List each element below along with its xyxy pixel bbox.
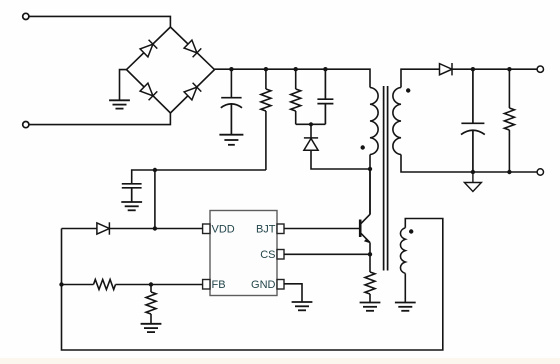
pin VDD box [203,224,210,234]
wire bridge diamond [127,27,215,113]
node bus-C3 junction [323,67,327,71]
wire top input [29,16,171,27]
capacitor C1 (bulk electrolytic) [221,98,242,135]
input terminal J1 (line, top) [23,13,29,19]
wire Y to VDD line [154,170,156,229]
node FB divider junction [149,282,153,286]
diode D6 (snubber clamp, pointing up) [304,138,318,150]
node bus-C1 junction [229,67,233,71]
node aux phase dot [409,229,413,233]
svg-text:VDD: VDD [212,224,235,236]
transformer T1 core [384,86,388,271]
wire primary bottom to collector [369,155,371,215]
resistor R1 (startup) [261,69,271,170]
transformer T1 primary winding [370,88,378,155]
node Y junction [153,168,157,172]
ground G7 (sense resistor) [360,303,381,311]
ground G8 (aux winding) [395,303,416,311]
resistor R4 (FB lower) [146,285,156,324]
diode D4 (bridge bottom-right) [184,83,202,101]
svg-text:BJT: BJT [256,224,276,236]
diode D5 (VDD charge) [97,222,110,234]
node load bottom junction [507,170,511,174]
pin GND box [277,280,284,290]
output terminal J4 (-) [537,169,543,175]
wire secondary top [401,69,440,87]
diode D2 (bridge top-right) [184,40,202,58]
capacitor C2 (VDD bypass) [122,184,142,202]
ground G3 (VDD cap) [121,202,142,210]
decorative bottom band [0,358,560,364]
pin BJT box [277,224,284,234]
input terminal J2 (neutral, bottom) [23,122,29,128]
wire bottom input [29,113,171,125]
diode D1 (bridge top-left) [140,40,158,58]
node primary phase dot [361,145,365,149]
wire GND pin to ground [284,284,302,302]
IC U1 body [210,211,277,296]
transformer T1 auxiliary winding [400,228,405,274]
transformer T1 secondary winding [393,88,401,155]
wire collector [369,169,371,215]
resistor R6 (load) [504,69,514,172]
diode D3 (bridge bottom-left) [140,83,158,101]
output terminal J3 (+) [537,66,543,72]
wire BJT base [284,228,359,230]
capacitor C3 (snubber) [317,69,333,124]
wire left rail [62,219,443,351]
ground G4 (secondary signal ground triangle) [464,172,481,192]
node output cap top junction [471,67,475,71]
resistor R5 (current sense) [365,272,375,302]
ground G2 (bulk cap) [219,135,243,145]
node bus-R1 junction [264,67,268,71]
wire FB line [62,280,203,290]
node FB left junction [59,282,63,286]
resistor R2 (snubber) [291,69,301,124]
wire snubber to diode [310,124,312,138]
node output cap bottom junction [471,170,475,174]
wire secondary bottom [401,155,537,173]
wire bulk cap drop [230,69,232,98]
wire CS [284,253,370,255]
diode D7 (output rectifier) [440,63,453,75]
wire aux bottom [404,273,406,302]
node VDD junction [153,226,157,230]
svg-text:GND: GND [251,279,276,291]
wire DC bus [215,69,371,87]
node CS junction [368,252,372,256]
node collector junction [368,167,372,171]
transistor Q1 (NPN) [360,214,370,243]
svg-text:CS: CS [260,249,275,261]
wire output top rail [452,68,537,70]
node secondary phase dot [406,88,410,92]
node load top junction [507,67,511,71]
pin CS box [277,250,284,260]
wire VDD line [62,228,203,230]
wire snubber return [311,150,370,169]
wire snubber RC join [296,123,326,125]
capacitor C4 (output electrolytic) [461,69,485,172]
pin FB box [203,280,210,290]
wire VDD feed horizontal [132,170,266,184]
svg-text:FB: FB [212,279,226,291]
ground G5 (FB divider) [141,324,162,332]
wire emitter to CS node [369,243,371,272]
wire bridge negative stub [120,70,127,101]
ground G6 (IC GND) [292,302,313,310]
node bus-R2 junction [294,67,298,71]
ground G1 (bridge negative) [109,100,130,108]
